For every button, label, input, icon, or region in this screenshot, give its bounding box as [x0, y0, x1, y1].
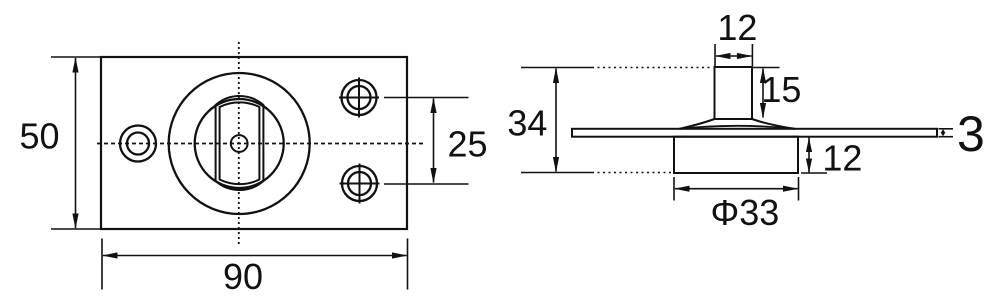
- dim phi33 line: [675, 188, 798, 190]
- dim 12 top extension lines: [714, 44, 716, 66]
- svg-text:25: 25: [447, 123, 487, 164]
- dim 12 right line: [808, 138, 810, 173]
- left hole inner: [127, 133, 149, 155]
- finger slot outer outline: [216, 96, 264, 190]
- svg-text:12: 12: [717, 7, 757, 48]
- dim 90 extension lines: [101, 239, 103, 290]
- dim 34 extension+dotted lines: [521, 67, 592, 69]
- flare left: [680, 119, 715, 129]
- dim 25 line: [433, 99, 435, 183]
- upper screw cross: [339, 97, 379, 99]
- svg-text:15: 15: [761, 69, 801, 110]
- horizontal centerline: [97, 143, 424, 145]
- lower screw hole: [342, 166, 377, 201]
- dim 15 extension line: [753, 67, 780, 69]
- dim 12 top line: [716, 55, 751, 57]
- svg-text:3: 3: [957, 106, 985, 162]
- finger slot inner outline: [220, 102, 260, 184]
- stub bottom edge: [715, 118, 753, 120]
- dim 50 line: [75, 58, 77, 228]
- dim 3 mini arrows: [941, 129, 946, 133]
- plate bar (side view): [572, 129, 937, 137]
- dim 90 line: [103, 255, 407, 257]
- cup outer circle: [169, 73, 310, 214]
- plate outline (90x50 base plate, top view): [101, 57, 407, 229]
- dim 50 extension lines: [51, 56, 101, 58]
- svg-text:90: 90: [223, 256, 263, 297]
- spindle stub: [715, 67, 753, 119]
- dim 34 line: [555, 69, 557, 172]
- svg-text:50: 50: [19, 115, 59, 156]
- dim 12 right extension line: [801, 172, 827, 174]
- svg-text:34: 34: [507, 102, 547, 143]
- cup inner circle: [195, 99, 284, 188]
- dim 3 extension lines: [939, 128, 954, 130]
- vertical centerline: [238, 42, 240, 245]
- center pivot hole: [231, 135, 248, 152]
- dim phi33 extension lines: [673, 177, 675, 201]
- left hole outer: [120, 126, 156, 162]
- svg-text:Φ33: Φ33: [711, 192, 780, 233]
- lower cylinder: [674, 137, 798, 173]
- dim 25 leader lines: [384, 97, 469, 99]
- flare right: [752, 119, 795, 129]
- lower screw cross: [340, 183, 380, 185]
- upper screw hole: [342, 80, 377, 115]
- svg-text:12: 12: [822, 137, 862, 178]
- dim 15 line: [762, 69, 764, 118]
- flare base arc: [680, 126, 795, 129]
